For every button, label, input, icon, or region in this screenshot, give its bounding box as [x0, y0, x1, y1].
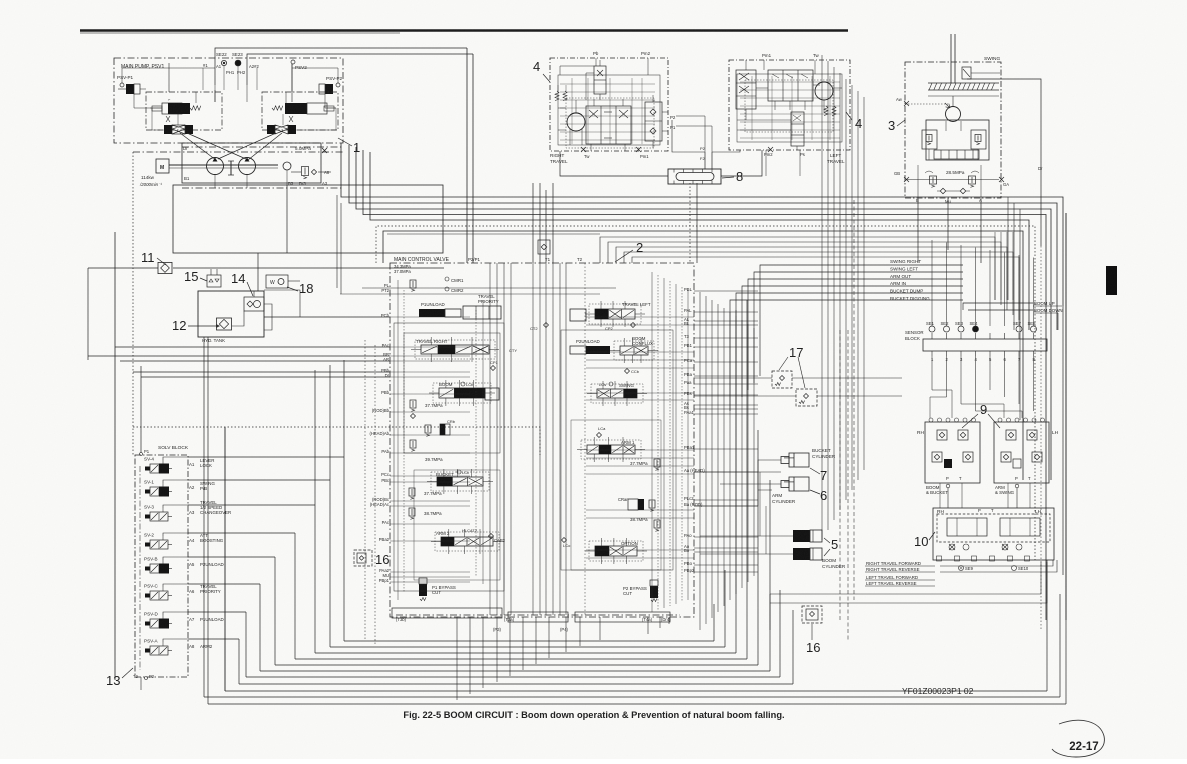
wire left dotted boundary — [132, 152, 134, 455]
sensor SE22 — [221, 60, 226, 65]
pump body box — [182, 143, 321, 183]
right travel motor dash box — [550, 58, 668, 151]
swing makeup valves — [930, 176, 937, 184]
travel pilot LH internals — [1000, 518, 1040, 536]
wire solv port routes to risers — [208, 456, 344, 458]
SE9 sensor — [959, 566, 964, 571]
wire boom up down lines — [963, 303, 1033, 310]
wire travel label feeds — [940, 560, 1053, 566]
P1 unload valve — [419, 309, 445, 317]
right travel inner mesh — [560, 83, 655, 85]
top horizontal rule — [80, 29, 848, 32]
left travel motor circle — [815, 82, 833, 100]
right travel springs — [555, 91, 559, 101]
pump output drop lines — [214, 175, 216, 188]
return line to tank — [257, 253, 259, 291]
wire top wrap bundle — [341, 143, 1063, 306]
wire PL PT2 drop lines — [336, 195, 338, 288]
right travel inner wiring — [560, 66, 594, 75]
swing brake winding — [928, 82, 999, 84]
wire swing risers to bus — [917, 200, 919, 263]
MCV outer dash-dot box — [390, 263, 694, 617]
wire pump to MCV columns — [532, 183, 534, 263]
MCV interior loop rectangles — [394, 323, 504, 591]
swash-to-pump cross links — [180, 133, 216, 160]
boom cylinder lower — [793, 548, 810, 560]
left swash plate — [164, 125, 172, 134]
hydraulic tank box — [198, 291, 264, 337]
left travel inner mesh — [740, 81, 840, 83]
check valve 18 — [266, 275, 288, 288]
wire pilot feed weave — [932, 390, 952, 418]
swing check diamonds — [940, 188, 946, 194]
motor box M — [156, 159, 169, 173]
MCV interior mesh horizontals right — [586, 316, 694, 318]
wire pilot PT drop lines — [947, 488, 949, 508]
wire tank risers — [224, 427, 226, 691]
SE22 SE23 sensor box — [215, 48, 467, 85]
swing brake coil — [950, 34, 952, 83]
right swash plate — [267, 125, 275, 134]
return check 14 component — [244, 297, 264, 311]
pilot LH internals — [1006, 430, 1016, 440]
black page edge mark — [1106, 266, 1117, 295]
swivel joint 8 — [668, 169, 721, 184]
right travel counterbalance valve — [586, 106, 631, 144]
left travel springs — [824, 106, 828, 116]
wire sensorside verticals — [994, 232, 996, 300]
right regulator box — [262, 92, 338, 130]
wire dotted pilot bus — [376, 226, 1035, 560]
wire right vertical bundle — [821, 55, 823, 540]
coupling bar — [230, 161, 232, 175]
MCV interior mesh verticals right — [651, 272, 653, 612]
pump drive shaft — [169, 164, 278, 166]
arm cylinder — [789, 477, 809, 491]
wire right label-row lines — [760, 265, 963, 376]
callout 1 — [338, 138, 352, 146]
travel pilot outer box — [933, 508, 1054, 560]
right travel P2 P1 out lines — [676, 116, 705, 152]
wire long left verticals — [343, 360, 345, 457]
wire swivel risers — [689, 183, 691, 263]
wire sensor return horizontals — [600, 237, 995, 300]
main pump unit outer dash-dot box — [114, 58, 343, 143]
holding valve 17b — [796, 389, 817, 406]
wire MCV right side bundle verticals — [699, 292, 701, 630]
suction filter 12 — [217, 318, 232, 330]
pilot RH internals — [937, 430, 947, 440]
left travel inner wiring — [763, 60, 765, 70]
swing port rail — [906, 179, 999, 181]
MCV bottom dash-dot rail — [396, 614, 680, 616]
wire bottom bus left risers — [343, 457, 345, 641]
wire lower right horizontals — [770, 562, 1041, 594]
left travel out lines — [765, 150, 767, 176]
wire right inner corner drops — [1007, 197, 1009, 300]
right regulator spool — [285, 103, 307, 114]
swing unit bottom lines — [917, 198, 919, 263]
filter 11 — [158, 262, 172, 273]
swing relief left — [922, 130, 937, 149]
right travel brake valve — [594, 66, 606, 94]
CCb diamond — [625, 369, 630, 374]
pump P1 circle — [207, 158, 224, 175]
swing relief right — [971, 130, 986, 149]
left travel lower valve — [791, 112, 804, 146]
left travel inner boxes — [768, 70, 813, 101]
boom relief lower — [410, 440, 416, 448]
wire MCV right horizontals — [694, 290, 758, 292]
left travel inner frame — [737, 74, 842, 142]
solenoid block outer dash-dot box — [135, 455, 188, 677]
pilot valve LH box arm swing — [994, 422, 1049, 483]
swing motor circle — [946, 107, 961, 122]
MCV pilot relief — [410, 280, 416, 288]
boom cylinder upper — [793, 530, 810, 542]
pump P2 circle — [239, 158, 256, 175]
pilot pump circle — [283, 162, 291, 170]
tank return big box — [173, 185, 443, 253]
swing shuttle row — [934, 150, 979, 159]
travel pilot inner dashed — [937, 514, 1050, 542]
wire MCV bottom drop columns — [456, 617, 458, 700]
left regulator spool — [162, 103, 182, 114]
SE10 sensor — [1012, 566, 1017, 571]
left travel motor dash box — [729, 60, 850, 150]
right travel inner frame — [558, 75, 660, 145]
wire cylinder feeds — [694, 471, 781, 473]
right travel motor circle — [567, 113, 585, 131]
CP1 diamond — [491, 366, 496, 371]
pilot port circles — [929, 418, 933, 422]
wire sensor block down-wires — [931, 356, 933, 390]
pilot valve RH box boom bucket — [925, 422, 980, 483]
T1 check symbol — [538, 240, 550, 254]
bucket cylinder — [789, 453, 809, 467]
left regulator box — [146, 92, 222, 130]
swing unit dash box — [905, 62, 1001, 198]
wire boom cylinder feed risers — [759, 472, 761, 536]
bucket relief valves — [409, 488, 415, 496]
right travel check pair — [645, 102, 662, 141]
left travel valve stack — [736, 70, 756, 109]
component 16 left — [354, 550, 372, 566]
pump internal wiring — [168, 63, 170, 92]
sensor SE23 — [235, 60, 241, 66]
wire MCV through columns — [532, 263, 534, 615]
wire swivel to travel motors — [560, 151, 668, 176]
wire bottom bus lines — [344, 640, 714, 642]
sensor block bar — [923, 339, 1047, 351]
travel pilot bottom ports — [937, 556, 942, 561]
tank internal pipes — [232, 311, 244, 326]
boom valve frame — [485, 388, 499, 400]
MCV interior mesh horizontals left — [390, 316, 470, 318]
pilot relief valve — [302, 167, 309, 176]
P1 port — [140, 453, 143, 456]
MCV long pilot crossing lines — [362, 287, 616, 289]
pump internal dash-dot frame — [182, 146, 343, 148]
wire mid-left horizontals into MCV — [87, 268, 89, 360]
travel pilot RH internals — [947, 518, 987, 536]
pilot check valve 16 right — [802, 606, 822, 623]
swing inner box — [926, 120, 989, 160]
vertical feed line into solv block — [114, 232, 116, 680]
wire right dash verticals — [839, 330, 841, 620]
MCV interior mesh verticals left — [397, 280, 399, 600]
wire sensor risers — [931, 240, 933, 326]
wire pump delivery lines — [466, 48, 468, 263]
swing brake release valve — [962, 67, 971, 79]
wire boom down long line — [1065, 213, 1067, 620]
holding valve 17a — [772, 371, 792, 388]
